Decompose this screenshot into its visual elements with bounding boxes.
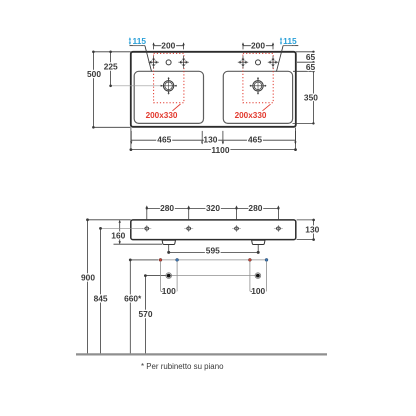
dimension 200 left top bbox=[152, 42, 184, 49]
leader line 225 to drain bbox=[111, 85, 160, 87]
svg-text:65: 65 bbox=[306, 52, 316, 62]
svg-text:320: 320 bbox=[206, 203, 220, 213]
svg-text:200: 200 bbox=[251, 41, 265, 51]
svg-text:500: 500 bbox=[87, 69, 101, 79]
waste point right (black) bbox=[255, 273, 261, 279]
drain boss right bbox=[252, 240, 265, 244]
svg-text:595: 595 bbox=[206, 246, 220, 256]
svg-text:130: 130 bbox=[203, 135, 217, 145]
dimension 130 right of front view bbox=[297, 220, 315, 240]
right bowl outline bbox=[223, 71, 292, 123]
svg-text:200x330: 200x330 bbox=[235, 111, 267, 120]
dimension 660* bbox=[129, 260, 131, 354]
hot water point right (red) bbox=[248, 258, 251, 261]
right side extension lines top view bbox=[293, 52, 315, 124]
dimension 570 bbox=[144, 276, 146, 354]
svg-text:100: 100 bbox=[251, 286, 265, 296]
svg-text:1100: 1100 bbox=[211, 145, 230, 155]
red leader left bbox=[173, 104, 181, 111]
left bowl outline bbox=[134, 71, 203, 123]
svg-text:465: 465 bbox=[248, 135, 262, 145]
red leader right bbox=[263, 104, 271, 111]
waste point left (black) bbox=[166, 273, 172, 279]
overflow hole right bbox=[256, 60, 261, 65]
dimension 595 bbox=[169, 245, 259, 253]
svg-text:845: 845 bbox=[94, 293, 108, 303]
dimension 200 right top bbox=[242, 42, 274, 49]
svg-text:900: 900 bbox=[81, 273, 95, 283]
dimension 225 left bbox=[110, 52, 112, 86]
svg-text:160: 160 bbox=[111, 231, 125, 241]
svg-text:* Per rubinetto su piano: * Per rubinetto su piano bbox=[141, 362, 224, 371]
svg-text:465: 465 bbox=[157, 135, 171, 145]
svg-text:65: 65 bbox=[306, 62, 316, 72]
cold water point right (blue) bbox=[265, 258, 268, 261]
dimension 160 bbox=[114, 220, 163, 244]
dimension 500 left bbox=[93, 52, 130, 128]
dimension 845 bbox=[101, 227, 144, 229]
svg-text:130: 130 bbox=[305, 225, 319, 235]
supply reference line bbox=[130, 259, 268, 261]
svg-text:350: 350 bbox=[304, 92, 318, 102]
svg-text:225: 225 bbox=[104, 62, 118, 72]
svg-text:200x330: 200x330 bbox=[146, 111, 178, 120]
washbasin counter outline (top view) bbox=[131, 52, 296, 127]
svg-text:570: 570 bbox=[139, 309, 153, 319]
drain symbol left bbox=[160, 77, 177, 94]
drain symbol right bbox=[250, 77, 267, 94]
svg-text:115: 115 bbox=[133, 36, 147, 46]
bottom ticks 465/130/465 bbox=[130, 131, 297, 145]
dimension 100 left bbox=[161, 290, 178, 292]
overflow hole left bbox=[166, 60, 171, 65]
svg-text:280: 280 bbox=[160, 203, 174, 213]
faucet position cross symbols bbox=[148, 56, 278, 69]
faucet cross 4 bbox=[268, 56, 278, 69]
callout 115 right (blue) bbox=[277, 36, 299, 71]
faucet cross 3 bbox=[238, 56, 248, 69]
faucet cross 2 bbox=[178, 56, 188, 69]
callout 115 left (blue) bbox=[129, 36, 152, 71]
svg-text:115: 115 bbox=[283, 36, 297, 46]
mounting holes bbox=[142, 225, 283, 231]
faucet cross 1 bbox=[148, 56, 158, 69]
dimension 1100 bbox=[131, 128, 296, 151]
dimension 280/320/280 top of front view bbox=[147, 208, 279, 219]
dimension 900 bbox=[88, 219, 131, 221]
drain reference line bbox=[145, 275, 258, 277]
drain boss left bbox=[162, 240, 175, 244]
red dashed tap-hole zone left 200x330 bbox=[154, 53, 184, 102]
hot water point left (red) bbox=[159, 258, 162, 261]
dimension 100 right bbox=[250, 290, 267, 292]
svg-text:200: 200 bbox=[161, 41, 175, 51]
supply drop lines bbox=[161, 262, 267, 292]
svg-text:660*: 660* bbox=[124, 293, 142, 303]
washbasin front outline bbox=[131, 220, 296, 240]
cold water point left (blue) bbox=[176, 258, 179, 261]
svg-text:280: 280 bbox=[248, 203, 262, 213]
floor line bbox=[76, 353, 327, 355]
svg-text:100: 100 bbox=[162, 286, 176, 296]
red dashed tap-hole zone right 200x330 bbox=[243, 53, 273, 102]
